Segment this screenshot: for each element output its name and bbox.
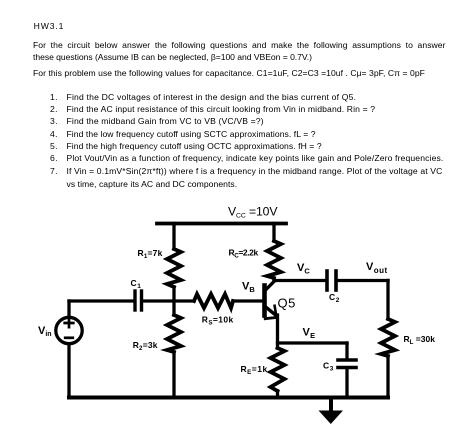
svg-text:VC: VC xyxy=(297,262,310,276)
svg-text:RE=1k: RE=1k xyxy=(241,364,268,376)
svg-text:C2: C2 xyxy=(329,292,340,304)
svg-text:Vin: Vin xyxy=(38,325,52,338)
svg-text:VCC =10V: VCC =10V xyxy=(228,205,278,220)
svg-text:R1=7k: R1=7k xyxy=(138,248,163,260)
svg-text:VB: VB xyxy=(242,281,255,295)
svg-text:RL =30k: RL =30k xyxy=(404,334,436,346)
svg-text:RS=10k: RS=10k xyxy=(202,315,234,327)
svg-text:RC=2.2k: RC=2.2k xyxy=(229,248,259,260)
svg-text:C3: C3 xyxy=(323,361,334,373)
svg-text:R2=3k: R2=3k xyxy=(133,340,158,352)
svg-text:VE: VE xyxy=(303,327,316,341)
svg-text:C1: C1 xyxy=(131,278,142,290)
svg-text:Vout: Vout xyxy=(366,261,388,275)
svg-text:Q5: Q5 xyxy=(278,296,296,311)
